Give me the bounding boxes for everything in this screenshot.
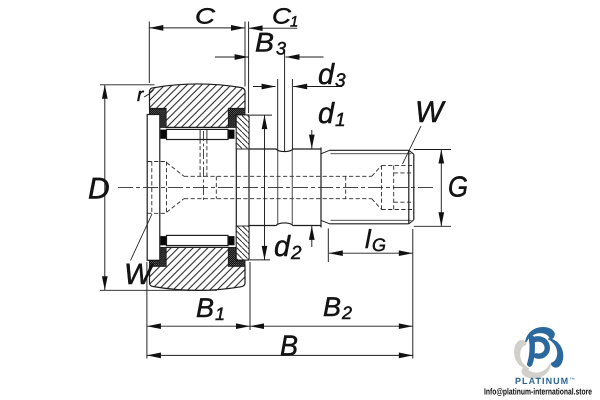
- extension line B3 right: [284, 52, 286, 152]
- needle roller strip bottom: [167, 235, 229, 245]
- thread crest lines: [330, 150, 409, 224]
- logo letter P bowl: [532, 339, 547, 356]
- D dimension line: [104, 85, 106, 290]
- svg-text:B: B: [280, 331, 298, 363]
- svg-text:PLATINUM: PLATINUM: [515, 376, 569, 386]
- lG arrows: [329, 250, 343, 256]
- seal lip black bottom-left: [160, 236, 166, 245]
- horizontal centerline: [118, 186, 433, 188]
- B arrows: [147, 353, 161, 359]
- d3 dimension line left part: [253, 86, 276, 88]
- d1 dimension line lower: [311, 226, 313, 247]
- extension line C left: [148, 22, 150, 84]
- svg-text:™: ™: [570, 378, 576, 384]
- svg-text:3: 3: [276, 39, 286, 59]
- stud end face: [413, 154, 415, 220]
- D arrows: [102, 85, 108, 99]
- svg-text:1: 1: [290, 14, 298, 31]
- d2 dimension line: [264, 115, 266, 260]
- C1 arrow: [249, 25, 263, 31]
- svg-text:1: 1: [215, 304, 225, 324]
- thread end line: [408, 150, 410, 224]
- d2 arrows: [262, 115, 268, 129]
- G extension top: [414, 149, 451, 151]
- hex socket cone left: [167, 163, 185, 213]
- extension lines d3 groove: [278, 79, 293, 151]
- svg-text:C: C: [272, 4, 291, 29]
- stud collar hatch bottom band: [236, 226, 249, 260]
- outer ring bottom section: [150, 247, 246, 290]
- thread root lines: [331, 154, 412, 221]
- d3 arrows pointing inward: [262, 84, 276, 90]
- leader r: [144, 90, 154, 97]
- extension line ring right face up: [244, 22, 246, 87]
- seal lip black top-right: [228, 130, 235, 139]
- svg-text:2: 2: [341, 303, 352, 323]
- shoulder face at thread start: [320, 148, 322, 228]
- bottom extension stud end: [412, 229, 414, 359]
- d1 arrows pointing inward: [309, 135, 315, 149]
- svg-text:G: G: [448, 172, 468, 204]
- d2 extension bottom: [250, 259, 270, 261]
- svg-text:D: D: [88, 173, 110, 206]
- svg-text:3: 3: [335, 71, 346, 92]
- G dimension line: [440, 150, 442, 227]
- B1 B2 dimension line: [147, 325, 413, 327]
- stud end chamfers: [409, 150, 414, 224]
- leader W right: [403, 126, 422, 164]
- logo petal gray bottom: [522, 363, 552, 378]
- hex socket right end: [382, 166, 414, 210]
- svg-text:W: W: [415, 96, 446, 129]
- d1 dimension line upper: [311, 130, 313, 149]
- logo petal gray left: [514, 340, 529, 370]
- arrowheads: [102, 25, 444, 358]
- svg-text:Info@platinum-international.st: Info@platinum-international.store: [484, 386, 592, 396]
- B3 arrows pointing inward: [235, 54, 249, 60]
- B dimension line: [147, 354, 413, 356]
- hidden hex socket left end: [148, 140, 414, 214]
- relief groove walls: [278, 151, 292, 225]
- svg-text:1: 1: [335, 110, 346, 131]
- stud d1 section outline: [249, 149, 321, 226]
- svg-text:C: C: [195, 4, 215, 29]
- thread bore inner pair right: [394, 173, 414, 202]
- C arrows: [149, 25, 163, 31]
- bottom extension left face: [146, 262, 148, 359]
- G extension bottom: [414, 225, 451, 227]
- svg-text:r: r: [137, 85, 144, 106]
- C1 dimension line: [249, 27, 298, 29]
- logo petal blue top: [525, 327, 555, 342]
- svg-text:B: B: [196, 293, 214, 323]
- svg-text:W: W: [124, 258, 155, 291]
- B2 arrows: [250, 323, 264, 329]
- seal bottom-right: [229, 247, 246, 266]
- stud collar outline: [236, 115, 249, 260]
- seal lip black top-left: [160, 130, 166, 139]
- svg-text:G: G: [372, 235, 386, 255]
- lG dimension line: [329, 252, 413, 254]
- thread start chamfer: [321, 150, 330, 224]
- D bottom extension: [100, 289, 217, 291]
- logo petal blue right: [548, 338, 563, 368]
- d3 dimension line right part: [293, 86, 342, 88]
- lube hole through top roller strip: [200, 129, 207, 139]
- bottom extension collar face: [249, 262, 251, 330]
- svg-text:l: l: [365, 224, 372, 254]
- grease hole vertical: [200, 140, 207, 177]
- d2 extension top: [250, 114, 272, 116]
- seal lip black bottom-right: [228, 236, 235, 245]
- outer ring top section: [150, 84, 246, 127]
- C dimension line: [149, 27, 245, 29]
- B3 dimension line left part: [215, 56, 249, 58]
- svg-text:B: B: [255, 28, 274, 58]
- svg-text:d: d: [318, 59, 335, 91]
- leader W left: [131, 214, 153, 261]
- svg-text:d: d: [318, 98, 335, 130]
- lG extension left: [327, 229, 329, 263]
- G arrows: [438, 150, 444, 164]
- seal top-right: [229, 109, 246, 128]
- axial pilot bore: [184, 176, 372, 198]
- left end plate washer: [147, 115, 160, 261]
- svg-text:2: 2: [290, 243, 302, 264]
- needle roller strip top: [167, 129, 229, 139]
- seal top-left: [150, 109, 167, 128]
- B1 arrows: [147, 323, 161, 329]
- socket cone right: [372, 166, 382, 210]
- seal bottom-left: [150, 247, 167, 266]
- extension line collar right face up: [248, 22, 250, 114]
- B3 dimension line right part: [286, 56, 324, 58]
- svg-text:d: d: [274, 231, 291, 263]
- D top extension: [100, 84, 155, 86]
- stud collar hatch top band: [236, 115, 249, 149]
- vertical centerline of lube hole: [203, 131, 205, 200]
- svg-text:B: B: [323, 292, 341, 322]
- logo letter P stem: [530, 338, 533, 364]
